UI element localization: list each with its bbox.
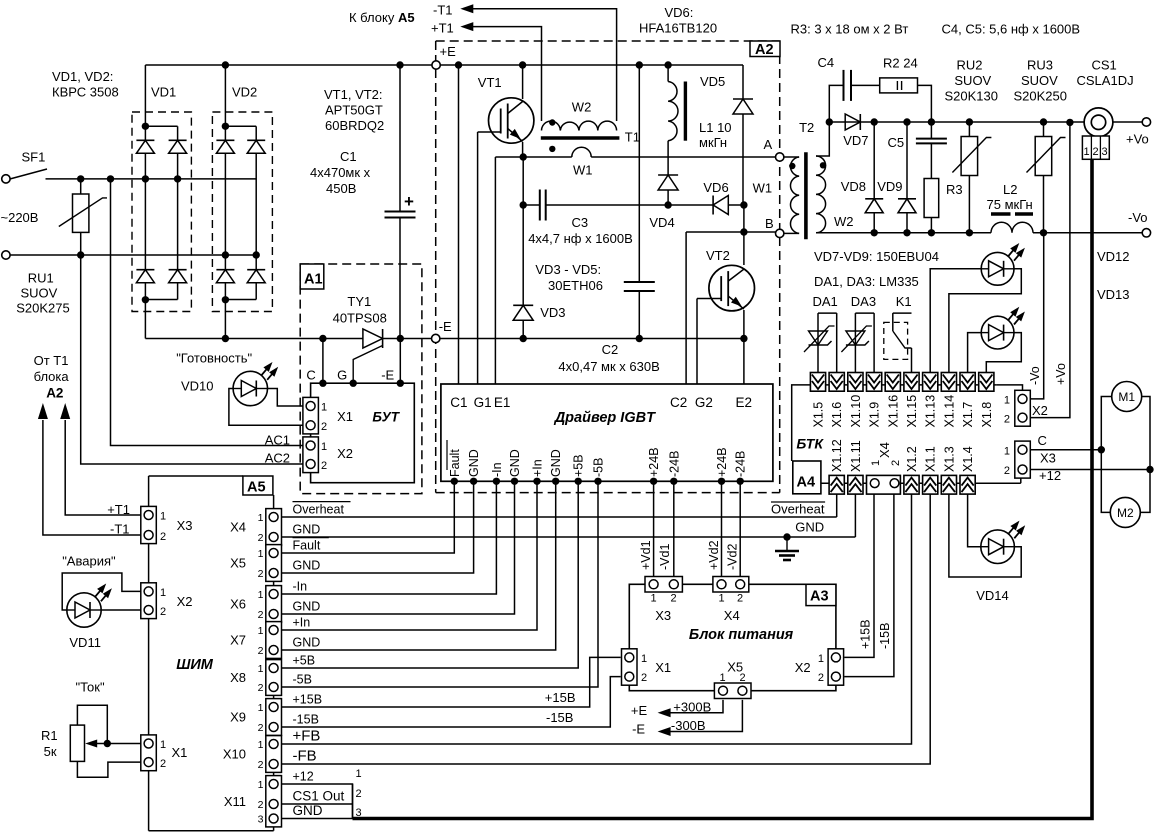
svg-text:VD1, VD2:: VD1, VD2: xyxy=(52,69,113,84)
svg-text:2: 2 xyxy=(258,682,264,694)
svg-text:A1: A1 xyxy=(304,272,323,288)
terminal -Vo xyxy=(1142,229,1150,237)
svg-text:E1: E1 xyxy=(494,395,511,410)
terminal +Vo xyxy=(1142,118,1150,126)
wire +12 xyxy=(282,784,353,819)
wire -E bus xyxy=(145,338,363,340)
svg-text:X7: X7 xyxy=(230,633,246,648)
svg-text:-5В: -5В xyxy=(293,673,312,687)
svg-text:VD10: VD10 xyxy=(181,379,214,394)
svg-text:C: C xyxy=(1038,433,1047,448)
svg-text:+15В: +15В xyxy=(293,693,323,707)
wire +FB xyxy=(282,494,912,744)
transformer T1 core xyxy=(541,136,620,140)
svg-text:C: C xyxy=(306,368,315,383)
label box A1 xyxy=(300,264,324,289)
svg-text:Overheat: Overheat xyxy=(293,503,345,517)
dashed box VD1 xyxy=(132,112,191,312)
svg-text:+12: +12 xyxy=(293,770,314,784)
svg-text:1: 1 xyxy=(1004,446,1010,458)
svg-text:X6: X6 xyxy=(230,597,246,612)
wire BTK left bus xyxy=(792,385,811,461)
svg-text:X1: X1 xyxy=(337,409,353,424)
svg-text:2: 2 xyxy=(1004,465,1010,477)
svg-text:X4: X4 xyxy=(230,520,246,535)
svg-text:X3: X3 xyxy=(655,608,671,623)
svg-text:DA3: DA3 xyxy=(851,294,876,309)
svg-text:1: 1 xyxy=(818,653,824,665)
connector X5 of A3 xyxy=(714,683,751,699)
svg-text:C4: C4 xyxy=(818,55,835,70)
svg-text:+15В: +15В xyxy=(859,619,873,649)
LED VD13 xyxy=(968,333,982,373)
svg-text:VD1: VD1 xyxy=(151,85,176,100)
svg-text:DA1, DA3: LM335: DA1, DA3: LM335 xyxy=(814,274,919,289)
svg-text:2: 2 xyxy=(818,672,824,684)
wire emitter to W1 xyxy=(495,156,523,158)
svg-text:GND: GND xyxy=(293,636,321,650)
wire BTK bottom bus xyxy=(821,482,1021,484)
connector X3 of A3 xyxy=(645,577,682,593)
svg-text:-E: -E xyxy=(632,722,645,737)
svg-text:75 мкГн: 75 мкГн xyxy=(987,197,1033,212)
wire -FB xyxy=(282,494,931,764)
wire VD6 line xyxy=(668,204,713,206)
svg-text:2: 2 xyxy=(258,568,264,580)
label box A5 xyxy=(243,476,273,495)
terminal boxes BTK bottom row xyxy=(829,475,844,494)
transformer T2 core xyxy=(804,152,808,239)
wire GND4 xyxy=(282,481,556,650)
svg-text:-24В: -24В xyxy=(667,451,681,477)
svg-text:1: 1 xyxy=(258,548,264,560)
svg-text:+Vo: +Vo xyxy=(1054,363,1068,385)
svg-text:1: 1 xyxy=(258,589,264,601)
box CS1 out cable xyxy=(352,784,354,819)
svg-text:3: 3 xyxy=(258,814,264,826)
block BUT box xyxy=(311,383,415,483)
wire -E branch xyxy=(397,335,404,342)
svg-text:T2: T2 xyxy=(799,120,814,135)
svg-text:+Vd1: +Vd1 xyxy=(639,540,653,570)
svg-text:RU1: RU1 xyxy=(28,271,54,286)
svg-text:VD13: VD13 xyxy=(1097,287,1130,302)
svg-text:RU3: RU3 xyxy=(1027,58,1053,73)
ground symbol xyxy=(783,533,790,540)
svg-text:БТК: БТК xyxy=(796,436,824,452)
connector X2 of A5 xyxy=(141,583,157,619)
wire -Vo to X2 xyxy=(1030,233,1043,399)
transformer T2 winding W1 xyxy=(784,156,799,158)
connector X1 of A5 xyxy=(141,735,157,771)
dashed box A2 xyxy=(436,40,780,42)
svg-text:X1.7: X1.7 xyxy=(961,402,975,428)
svg-text:1: 1 xyxy=(258,625,264,637)
terminal boxes BTK top row xyxy=(810,373,825,392)
wire BTK top bus segments xyxy=(810,384,996,386)
svg-text:КВРС 3508: КВРС 3508 xyxy=(52,85,119,100)
svg-text:GND: GND xyxy=(293,803,323,818)
wire +Vd2 xyxy=(721,481,723,577)
svg-text:VD6:: VD6: xyxy=(665,5,694,20)
svg-text:X2: X2 xyxy=(1032,403,1048,418)
svg-text:AC2: AC2 xyxy=(265,450,290,465)
svg-text:C1: C1 xyxy=(340,149,357,164)
wire -5V xyxy=(282,481,599,687)
svg-text:1: 1 xyxy=(719,593,725,605)
svg-text:А2: А2 xyxy=(46,386,63,401)
svg-text:C3: C3 xyxy=(572,215,589,230)
svg-text:ШИМ: ШИМ xyxy=(176,657,214,673)
svg-text:R1: R1 xyxy=(41,728,58,743)
LED VD14 xyxy=(949,494,1021,577)
varistor RU2 xyxy=(966,118,973,125)
svg-text:X1: X1 xyxy=(655,660,671,675)
svg-text:-Vo: -Vo xyxy=(1028,366,1042,385)
svg-text:-5В: -5В xyxy=(592,458,606,477)
svg-text:+5В: +5В xyxy=(572,454,586,477)
svg-text:X2: X2 xyxy=(177,594,193,609)
svg-text:SF1: SF1 xyxy=(22,150,46,165)
svg-text:-Vd2: -Vd2 xyxy=(726,544,740,570)
wire GND CS1 thick xyxy=(282,818,353,820)
svg-text:Fault: Fault xyxy=(448,449,462,477)
svg-text:G2: G2 xyxy=(695,395,713,410)
capacitor C3 xyxy=(522,157,524,205)
wire AC2 xyxy=(81,255,304,464)
connector X1 of BUT xyxy=(303,397,319,434)
svg-text:30ETH06: 30ETH06 xyxy=(548,278,603,293)
varistor RU1 xyxy=(80,179,82,194)
terminal +E xyxy=(432,61,440,69)
wire -In xyxy=(282,481,497,594)
svg-text:VD4: VD4 xyxy=(649,215,674,230)
svg-text:VD3 - VD5:: VD3 - VD5: xyxy=(535,262,601,277)
svg-text:2: 2 xyxy=(1093,146,1099,158)
svg-text:1: 1 xyxy=(720,672,726,684)
svg-text:От Т1: От Т1 xyxy=(34,353,69,368)
svg-text:2: 2 xyxy=(258,799,264,811)
svg-text:M2: M2 xyxy=(1117,506,1134,520)
svg-text:1: 1 xyxy=(258,739,264,751)
svg-text:A4: A4 xyxy=(797,475,816,491)
wire input line2 xyxy=(10,254,256,256)
wire G2 vertical xyxy=(696,299,698,385)
transformer T2 winding W2 xyxy=(816,156,826,233)
svg-text:S20K250: S20K250 xyxy=(1014,89,1068,104)
svg-text:VD8: VD8 xyxy=(841,179,866,194)
svg-text:К блоку А5: К блоку А5 xyxy=(349,10,415,25)
svg-text:-15В: -15В xyxy=(878,623,892,649)
svg-text:-E: -E xyxy=(381,368,394,383)
svg-text:X4: X4 xyxy=(877,442,892,458)
svg-text:DA1: DA1 xyxy=(813,294,838,309)
svg-text:+E: +E xyxy=(631,703,648,718)
svg-text:X1.2: X1.2 xyxy=(905,446,919,472)
svg-text:2: 2 xyxy=(890,460,902,466)
svg-text:C4, C5: 5,6 нф х 1600В: C4, C5: 5,6 нф х 1600В xyxy=(942,22,1081,37)
svg-text:X1.12: X1.12 xyxy=(830,439,844,472)
svg-text:VD11: VD11 xyxy=(69,635,101,650)
svg-text:SUOV: SUOV xyxy=(1021,73,1058,88)
block A3 outline xyxy=(629,584,836,690)
wire AC1 xyxy=(107,175,114,182)
svg-text:W1: W1 xyxy=(573,163,593,178)
svg-text:X1.15: X1.15 xyxy=(905,395,919,428)
svg-text:2: 2 xyxy=(160,531,166,543)
driver bottom pins xyxy=(451,478,458,485)
wire C1 vertical xyxy=(455,61,462,68)
svg-text:X4: X4 xyxy=(724,608,740,623)
svg-text:TY1: TY1 xyxy=(347,294,371,309)
svg-text:4х4,7 нф х 1600В: 4х4,7 нф х 1600В xyxy=(528,231,633,246)
svg-text:2: 2 xyxy=(258,532,264,544)
wire +Vd1 xyxy=(653,481,655,577)
svg-text:1: 1 xyxy=(258,512,264,524)
wire +15V xyxy=(282,657,621,707)
svg-text:2: 2 xyxy=(641,672,647,684)
svg-text:VD5: VD5 xyxy=(700,74,725,89)
rectifier VD1 xyxy=(142,123,149,130)
svg-text:S20K130: S20K130 xyxy=(945,89,999,104)
svg-text:1: 1 xyxy=(651,593,657,605)
svg-text:X1.16: X1.16 xyxy=(886,395,900,428)
svg-text:A5: A5 xyxy=(247,480,266,496)
wire Fault xyxy=(282,481,455,553)
wire -15V xyxy=(282,677,621,727)
wire +Vo rail xyxy=(829,121,1084,123)
svg-text:2: 2 xyxy=(160,758,166,770)
svg-text:+In: +In xyxy=(531,459,545,477)
svg-text:-300В: -300В xyxy=(671,718,706,733)
svg-text:1: 1 xyxy=(258,663,264,675)
svg-text:2: 2 xyxy=(321,460,327,472)
connector X3 of BTK xyxy=(1015,441,1031,478)
svg-text:CSLA1DJ: CSLA1DJ xyxy=(1077,73,1134,88)
svg-text:X2: X2 xyxy=(337,446,353,461)
svg-text:40TPS08: 40TPS08 xyxy=(333,311,387,326)
svg-text:VD12: VD12 xyxy=(1097,249,1130,264)
wire C to motors xyxy=(1030,449,1101,451)
svg-text:1: 1 xyxy=(160,739,166,751)
wire W1 output to A xyxy=(523,156,572,158)
svg-text:-In: -In xyxy=(293,580,308,594)
svg-text:1: 1 xyxy=(1004,395,1010,407)
svg-text:A2: A2 xyxy=(755,42,774,58)
svg-text:1: 1 xyxy=(321,441,327,453)
svg-text:X1.1: X1.1 xyxy=(924,446,938,472)
svg-text:X5: X5 xyxy=(230,556,246,571)
svg-text:X3: X3 xyxy=(1040,451,1056,466)
svg-text:1: 1 xyxy=(870,460,882,466)
LED VD12 xyxy=(930,269,981,373)
wire -300V xyxy=(669,700,742,732)
svg-text:X8: X8 xyxy=(230,670,246,685)
svg-text:VD7-VD9: 150EBU04: VD7-VD9: 150EBU04 xyxy=(814,249,939,264)
svg-text:+: + xyxy=(404,192,414,211)
terminal -E xyxy=(432,334,440,342)
svg-text:VD9: VD9 xyxy=(877,179,902,194)
svg-text:+24В: +24В xyxy=(647,447,661,477)
switch SF1 xyxy=(2,175,10,183)
svg-text:S20K275: S20K275 xyxy=(16,301,69,316)
wire GND2 xyxy=(282,481,474,573)
svg-text:VD14: VD14 xyxy=(976,588,1009,603)
svg-text:2: 2 xyxy=(737,593,743,605)
svg-text:2: 2 xyxy=(671,593,677,605)
wire GND right xyxy=(282,536,856,538)
svg-text:2: 2 xyxy=(160,606,166,618)
svg-text:K1: K1 xyxy=(896,294,912,309)
wire -Vo rail xyxy=(816,232,991,234)
svg-text:A: A xyxy=(764,137,773,152)
svg-text:GND: GND xyxy=(549,449,563,477)
svg-text:-In: -In xyxy=(490,462,504,477)
connector X2 of BUT xyxy=(303,437,319,473)
svg-text:X1.13: X1.13 xyxy=(924,395,938,428)
motor M2 xyxy=(1110,497,1140,527)
svg-text:+T1: +T1 xyxy=(431,21,454,36)
diode VD3 xyxy=(522,205,524,305)
svg-text:W2: W2 xyxy=(834,214,854,229)
svg-text:Драйвер IGBT: Драйвер IGBT xyxy=(553,410,656,426)
svg-text:R3: 3 х 18 ом х 2 Вт: R3: 3 х 18 ом х 2 Вт xyxy=(791,22,909,37)
svg-text:X11: X11 xyxy=(224,794,246,809)
wire +Vo to X2 xyxy=(1030,122,1070,417)
svg-text:VT1: VT1 xyxy=(478,75,502,90)
block ShIM outline xyxy=(149,475,243,477)
svg-text:AC1: AC1 xyxy=(265,432,290,447)
wire +300V xyxy=(669,700,723,713)
inductor L1 xyxy=(664,61,671,68)
svg-text:W2: W2 xyxy=(572,100,592,115)
connector X1 of A3 xyxy=(622,649,638,685)
svg-text:2: 2 xyxy=(258,722,264,734)
wire G1 vertical xyxy=(477,132,479,384)
svg-text:Блок питания: Блок питания xyxy=(689,627,794,643)
svg-text:2: 2 xyxy=(356,788,362,800)
svg-text:G1: G1 xyxy=(474,395,492,410)
dashed box A1 xyxy=(300,264,422,494)
wire +E bus xyxy=(145,64,743,66)
wire C branch xyxy=(319,335,326,342)
svg-text:X1.5: X1.5 xyxy=(812,402,826,428)
wire C2 sense xyxy=(685,232,687,384)
wire Overheat xyxy=(282,516,837,518)
block driver IGBT xyxy=(441,384,773,481)
svg-text:CS1 Out: CS1 Out xyxy=(293,789,345,804)
svg-text:4х470мк х: 4х470мк х xyxy=(310,165,371,180)
label box A3 xyxy=(806,584,836,605)
svg-text:GND: GND xyxy=(293,600,321,614)
svg-text:L1 10: L1 10 xyxy=(699,120,732,135)
connector X4 of A3 xyxy=(713,577,749,593)
svg-text:G: G xyxy=(337,368,347,383)
svg-text:1: 1 xyxy=(356,768,362,780)
wiper R1 xyxy=(88,743,141,745)
svg-text:C2: C2 xyxy=(602,342,619,357)
svg-text:GND: GND xyxy=(795,520,824,535)
label box A2 xyxy=(750,41,780,57)
svg-text:A3: A3 xyxy=(810,589,829,605)
svg-text:+300В: +300В xyxy=(673,700,711,715)
svg-text:-15В: -15В xyxy=(293,713,319,727)
svg-text:X1.14: X1.14 xyxy=(942,395,956,428)
svg-text:-Vo: -Vo xyxy=(1128,210,1148,225)
svg-text:2: 2 xyxy=(258,609,264,621)
svg-text:R2 24: R2 24 xyxy=(883,56,918,71)
svg-text:блока: блока xyxy=(34,369,70,384)
svg-text:1: 1 xyxy=(321,402,327,414)
svg-text:X5: X5 xyxy=(727,660,743,675)
svg-text:-24В: -24В xyxy=(734,451,748,477)
svg-text:3: 3 xyxy=(1102,146,1108,158)
svg-text:2: 2 xyxy=(1004,414,1010,426)
svg-text:C5: C5 xyxy=(888,135,905,150)
svg-text:C2: C2 xyxy=(670,395,687,410)
svg-text:VD2: VD2 xyxy=(232,85,257,100)
svg-text:SUOV: SUOV xyxy=(21,286,58,301)
connectors X4-X11 of A5 xyxy=(266,509,282,546)
svg-text:"Ток": "Ток" xyxy=(76,680,105,695)
svg-text:-15В: -15В xyxy=(546,710,573,725)
svg-text:1: 1 xyxy=(258,702,264,714)
svg-text:1: 1 xyxy=(160,587,166,599)
svg-text:60BRDQ2: 60BRDQ2 xyxy=(325,118,384,133)
wire E1 vertical xyxy=(494,157,496,384)
wire +In xyxy=(282,481,538,630)
svg-text:W1: W1 xyxy=(753,180,773,195)
svg-text:VT2: VT2 xyxy=(706,248,730,263)
varistor RU3 xyxy=(1040,118,1047,125)
svg-text:X1.3: X1.3 xyxy=(942,446,956,472)
transformer T1 winding W1 xyxy=(549,146,555,152)
svg-text:2: 2 xyxy=(258,759,264,771)
svg-text:2: 2 xyxy=(258,645,264,657)
diode VD4 xyxy=(667,141,669,175)
svg-text:+E: +E xyxy=(440,44,457,59)
svg-text:C1: C1 xyxy=(450,395,467,410)
svg-text:X2: X2 xyxy=(795,660,811,675)
svg-text:+Vo: +Vo xyxy=(1126,132,1149,147)
svg-text:1: 1 xyxy=(641,653,647,665)
dashed box VD2 xyxy=(212,112,272,312)
svg-text:X10: X10 xyxy=(223,747,246,762)
svg-text:X1.11: X1.11 xyxy=(849,440,863,472)
svg-text:+15В: +15В xyxy=(545,690,576,705)
wire -Vd1 xyxy=(673,481,675,577)
svg-text:VD3: VD3 xyxy=(540,305,565,320)
svg-text:-FB: -FB xyxy=(293,748,317,765)
svg-text:+Vd2: +Vd2 xyxy=(707,540,721,570)
label box A4 xyxy=(793,461,821,494)
svg-text:~220В: ~220В xyxy=(1,210,39,225)
svg-text:VD6: VD6 xyxy=(703,180,728,195)
svg-text:4х0,47 мк х 630В: 4х0,47 мк х 630В xyxy=(558,359,659,374)
svg-text:GND: GND xyxy=(508,449,522,477)
wire B line xyxy=(686,231,775,233)
svg-text:RU2: RU2 xyxy=(957,58,983,73)
svg-text:-Vd1: -Vd1 xyxy=(658,544,672,570)
svg-text:VT1, VT2:: VT1, VT2: xyxy=(324,87,383,102)
wire -Vd2 xyxy=(739,481,741,577)
svg-text:SUOV: SUOV xyxy=(954,73,991,88)
wire -15V to BTK xyxy=(844,494,894,676)
wire -T1 from T1 xyxy=(43,420,141,535)
svg-text:B: B xyxy=(765,216,774,231)
svg-text:"Авария": "Авария" xyxy=(62,554,116,569)
capacitor C2 xyxy=(636,61,643,68)
